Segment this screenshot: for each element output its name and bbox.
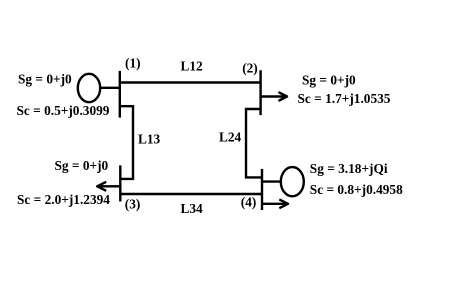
svg-text:Sc = 2.0+j1.2394: Sc = 2.0+j1.2394	[17, 192, 110, 207]
bus 2 bar	[259, 70, 261, 115]
line L34	[120, 193, 262, 195]
svg-text:(2): (2)	[242, 61, 258, 76]
svg-text:(3): (3)	[125, 196, 141, 211]
bus 4 bar	[261, 169, 263, 210]
svg-text:L13: L13	[138, 132, 161, 147]
line L13	[120, 106, 133, 179]
line L12	[120, 81, 261, 83]
svg-text:L34: L34	[181, 201, 204, 216]
svg-text:L12: L12	[181, 58, 204, 73]
svg-text:Sg = 0+j0: Sg = 0+j0	[302, 73, 356, 88]
svg-text:Sc = 1.7+j1.0535: Sc = 1.7+j1.0535	[298, 91, 391, 106]
svg-text:Sc = 0.8+j0.4958: Sc = 0.8+j0.4958	[310, 182, 403, 197]
svg-text:L24: L24	[219, 130, 242, 145]
line L24	[246, 109, 262, 177]
wire generator G4 lead	[262, 180, 281, 182]
load arrow bus 2	[261, 92, 287, 101]
svg-text:(1): (1)	[125, 55, 141, 70]
svg-text:Sg = 0+j0: Sg = 0+j0	[18, 72, 72, 87]
load arrow bus 4	[262, 199, 288, 208]
svg-text:Sg = 0+j0: Sg = 0+j0	[55, 158, 109, 173]
wire generator G1 lead	[100, 87, 120, 89]
bus 1 bar	[119, 71, 121, 118]
svg-text:Sg = 3.18+jQi: Sg = 3.18+jQi	[310, 161, 388, 176]
svg-text:Sc = 0.5+j0.3099: Sc = 0.5+j0.3099	[17, 103, 110, 118]
generator G1	[78, 74, 100, 102]
svg-text:(4): (4)	[241, 195, 257, 210]
generator G4	[281, 167, 304, 196]
bus 3 bar	[119, 165, 121, 201]
load arrow bus 3	[97, 182, 120, 191]
